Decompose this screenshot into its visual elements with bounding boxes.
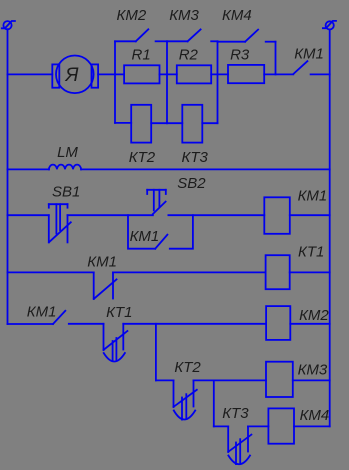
contact KM2: [115, 29, 167, 41]
right bus wire: [329, 30, 331, 427]
node D vertical (right of R3): [275, 42, 277, 75]
wire R3 to KM1 contact: [264, 73, 293, 75]
svg-text:КТ2: КТ2: [129, 149, 156, 166]
coil KM2: [266, 306, 290, 340]
rail 4 wire left: [8, 271, 94, 273]
coil KM1: [264, 197, 290, 234]
node B vertical (R1/R2): [166, 41, 168, 123]
svg-text:КМ3: КМ3: [169, 7, 199, 24]
inductor LM: [49, 165, 81, 170]
pushbutton SB1 (NC): [49, 204, 71, 242]
resistor R1: [124, 65, 159, 83]
wire KT1 contact to coil KM2: [123, 323, 266, 325]
svg-text:КМ1: КМ1: [130, 228, 160, 245]
wire motor to node A: [98, 73, 124, 75]
rail 3 wire left: [8, 214, 49, 216]
contact KM1 (self-hold NO): [155, 235, 167, 249]
terminal XT2 (top right): [323, 21, 336, 30]
contact KT2 (NC time-delay): [174, 380, 197, 419]
contact KT1 (NC time-delay): [104, 324, 128, 362]
svg-text:КМ3: КМ3: [298, 362, 328, 379]
svg-text:Я: Я: [65, 65, 79, 86]
svg-text:КТ3: КТ3: [222, 405, 249, 422]
svg-text:SB1: SB1: [52, 184, 80, 201]
node A vertical (left of R1): [114, 41, 116, 123]
branch wire rail5 to rail6: [155, 324, 157, 381]
wire top rail left: [8, 73, 53, 75]
contact KT3 (NC time-delay): [228, 426, 251, 464]
coil KT1: [266, 255, 290, 289]
wire KT2 to node B: [151, 122, 167, 124]
wire KM1 NC to coil KT1: [113, 271, 266, 273]
rail 5 wire left: [8, 323, 54, 325]
contact KM4: [218, 30, 276, 42]
terminal XT1 (top left): [2, 21, 15, 29]
time relay coil KT2 (box): [131, 105, 151, 143]
wire R2 to R3: [211, 73, 228, 75]
svg-text:КМ1: КМ1: [27, 303, 57, 320]
wire node B to KT3: [167, 122, 182, 124]
rail 2 wire left: [8, 168, 49, 170]
svg-text:КТ1: КТ1: [106, 304, 132, 321]
svg-text:КМ1: КМ1: [87, 253, 117, 270]
self-hold branch right wire: [170, 215, 193, 249]
wire SB2 to coil KM1: [168, 214, 264, 216]
coil KM4: [268, 408, 294, 443]
self-hold branch left wire: [128, 215, 155, 249]
svg-text:КМ2: КМ2: [299, 307, 329, 324]
svg-text:КМ1: КМ1: [298, 187, 328, 204]
contact KM1 (top right): [293, 61, 329, 74]
pushbutton SB2 (NO): [147, 190, 166, 214]
contact KM1 (NO, bottom left): [53, 311, 65, 324]
svg-text:КМ1: КМ1: [294, 45, 324, 62]
wire KT3 to node C: [202, 122, 217, 124]
wire KT3 contact to coil KM4: [248, 425, 268, 427]
wire coil KT1 to right bus: [290, 271, 330, 273]
left bus wire: [7, 29, 9, 324]
wire R1 to R2: [160, 73, 177, 75]
svg-text:КТ1: КТ1: [298, 244, 324, 261]
svg-text:КМ4: КМ4: [222, 7, 252, 24]
svg-text:КТ3: КТ3: [182, 149, 209, 166]
svg-text:КМ4: КМ4: [300, 407, 330, 424]
rail 2 wire right: [81, 168, 330, 170]
wire SB1 to SB2: [68, 214, 153, 216]
svg-text:КТ2: КТ2: [174, 359, 201, 376]
wire coil KM4 to right bus: [294, 425, 330, 427]
wire KT2 contact to coil KM3: [194, 379, 267, 381]
svg-text:R3: R3: [230, 47, 250, 64]
svg-text:КМ2: КМ2: [117, 7, 147, 24]
wire KM1 NO to KT1 contact: [69, 323, 104, 325]
svg-text:R2: R2: [179, 47, 199, 64]
branch wire rail6 to rail7: [213, 380, 215, 426]
rail 7 wire left: [214, 425, 228, 427]
wire coil KM2 to right bus: [290, 323, 329, 325]
wire coil KM3 to right bus: [293, 379, 330, 381]
resistor R3: [228, 65, 264, 83]
rail 6 wire left: [156, 379, 174, 381]
contact KM1 (NC): [94, 272, 117, 299]
svg-text:SB2: SB2: [177, 175, 206, 192]
resistor R2: [177, 65, 211, 83]
svg-text:LM: LM: [57, 144, 78, 161]
wire node A to KT2: [115, 122, 131, 124]
contact KM3: [167, 29, 218, 41]
time relay coil KT3 (box): [182, 105, 202, 143]
node C vertical (R2/R3): [217, 41, 219, 123]
wire coil KM1 to right bus: [290, 214, 330, 216]
svg-text:R1: R1: [132, 47, 151, 64]
coil KM3: [266, 362, 293, 397]
motor armature Я: [52, 56, 98, 94]
